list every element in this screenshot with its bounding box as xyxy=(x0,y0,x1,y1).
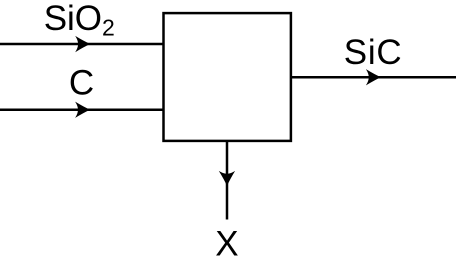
wire input SiO2 xyxy=(0,43,163,46)
svg-text:C: C xyxy=(69,64,94,103)
svg-text:SiC: SiC xyxy=(344,33,403,72)
svg-text:X: X xyxy=(215,225,238,264)
process box xyxy=(164,13,291,141)
wire input C xyxy=(0,108,163,111)
wire output SiC xyxy=(291,76,456,79)
arrowhead input SiO2 xyxy=(75,36,90,52)
arrowhead output SiC xyxy=(366,69,381,85)
wire output X (down) xyxy=(226,141,229,220)
arrowhead output X xyxy=(219,171,235,186)
svg-text:SiO2: SiO2 xyxy=(44,0,115,40)
arrowhead input C xyxy=(75,102,90,118)
